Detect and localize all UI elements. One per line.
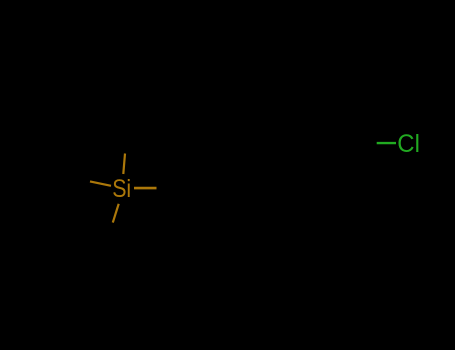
svg-text:Si: Si: [112, 176, 131, 203]
svg-text:Cl: Cl: [397, 131, 420, 158]
